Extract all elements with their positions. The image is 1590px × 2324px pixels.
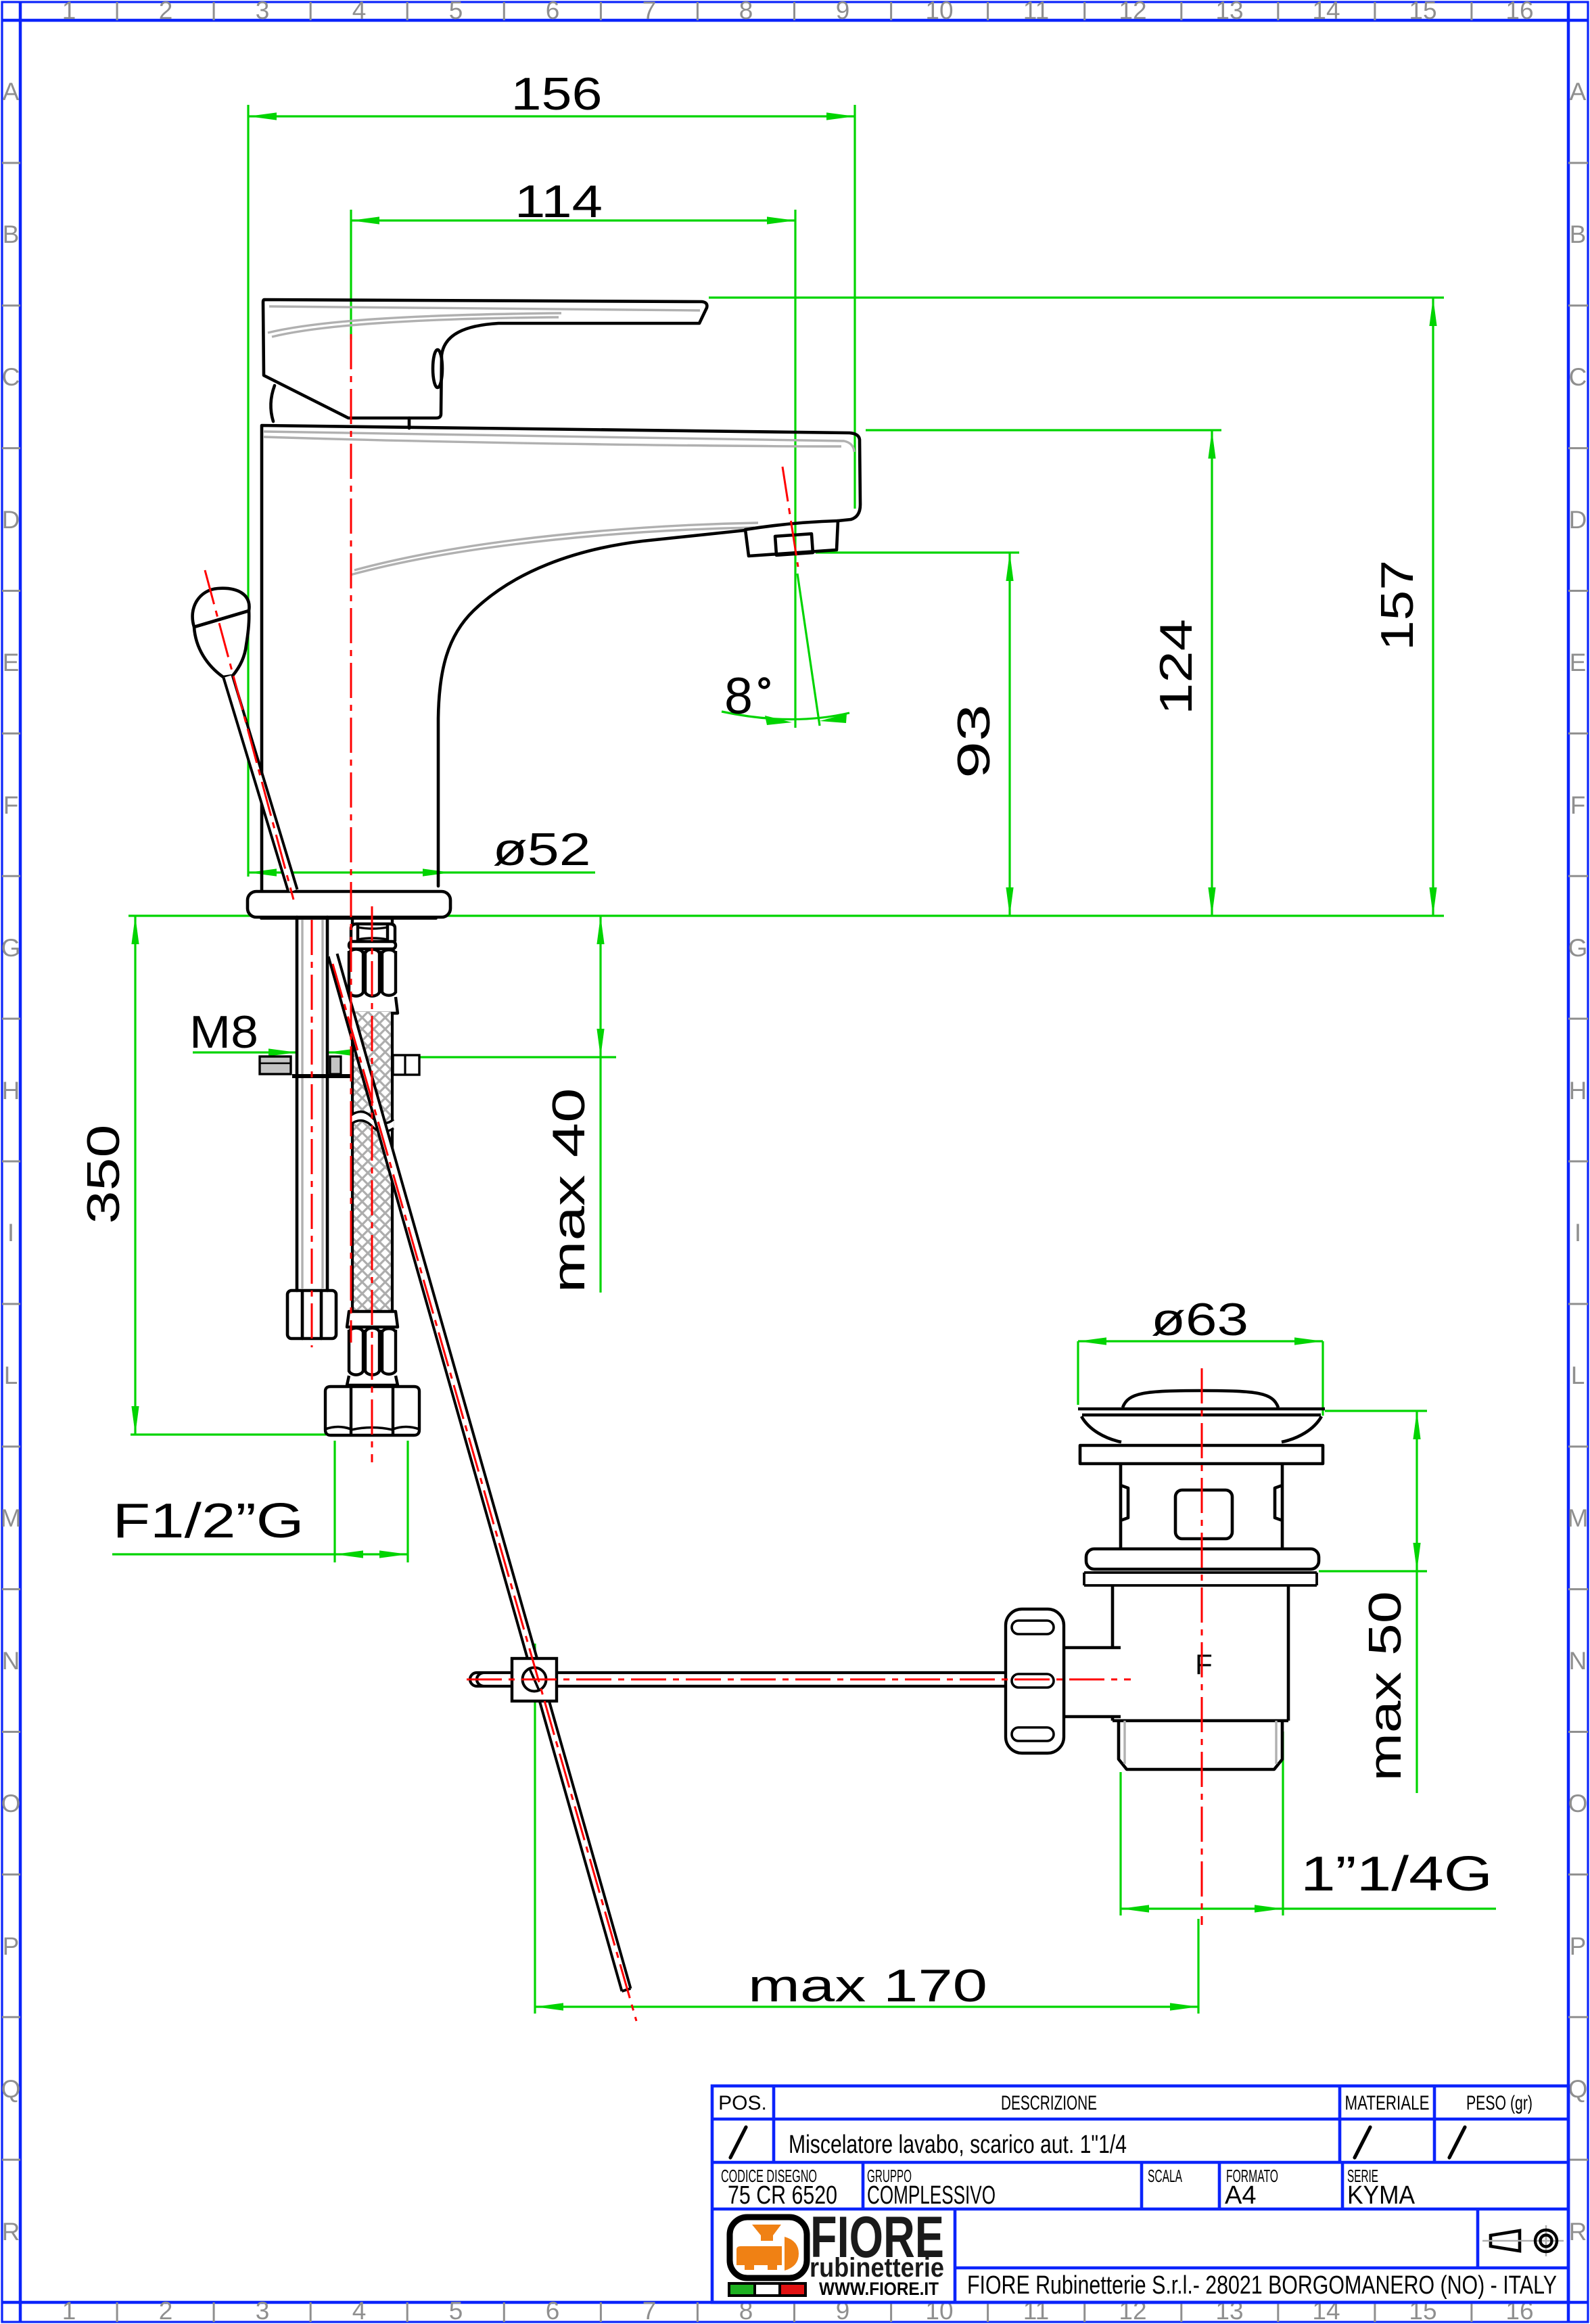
svg-text:11: 11 — [1023, 0, 1049, 24]
dimension 1"1/4G — [1121, 1907, 1496, 1909]
centerline faucet body axis — [350, 334, 352, 1343]
svg-text:B: B — [3, 220, 20, 248]
svg-text:8: 8 — [724, 668, 753, 725]
svg-text:M8: M8 — [189, 1006, 258, 1058]
svg-text:157: 157 — [1372, 560, 1423, 651]
svg-text:M: M — [1568, 1504, 1589, 1532]
svg-text:B: B — [1570, 220, 1587, 248]
svg-text:C: C — [1569, 363, 1587, 391]
svg-text:R: R — [1569, 2218, 1587, 2246]
svg-text:3: 3 — [256, 2297, 270, 2324]
svg-text:12: 12 — [1119, 0, 1146, 24]
svg-text:N: N — [1569, 1647, 1587, 1675]
mounting plate right clamp — [393, 1055, 419, 1075]
title block grid — [712, 2086, 1568, 2302]
drain knurled nut — [1006, 1609, 1064, 1753]
drain threaded tail — [1119, 1721, 1282, 1769]
mounting plate left block — [260, 1056, 291, 1074]
svg-text:10: 10 — [925, 0, 953, 24]
clevis screw circle — [523, 1668, 546, 1692]
hose braided tube — [352, 1012, 392, 1311]
svg-text:Q: Q — [1, 2075, 21, 2103]
svg-text:93: 93 — [948, 704, 1000, 778]
extension line lever top level — [709, 296, 1444, 298]
spout underside highlight — [354, 523, 758, 570]
centerline lift rod lower — [333, 964, 636, 2021]
dimension F1/2"G extension lines — [333, 1441, 335, 1562]
svg-text:P: P — [3, 1932, 20, 1960]
svg-text:max 40: max 40 — [543, 1088, 594, 1293]
hose bottom corrugation — [325, 1311, 419, 1435]
projection symbol circles — [1482, 2240, 1564, 2242]
handle pivot ellipse — [433, 350, 442, 388]
dimension 350 bottom extension — [131, 1433, 326, 1435]
svg-text:L: L — [4, 1362, 18, 1389]
spout and body outline — [438, 530, 745, 886]
svg-text:H: H — [1569, 1077, 1587, 1105]
drain upper body — [1121, 1464, 1282, 1549]
svg-text:7: 7 — [642, 0, 657, 24]
pull rod clevis block — [512, 1658, 557, 1701]
dimension 114 — [351, 219, 795, 221]
svg-text:I: I — [7, 1219, 14, 1247]
centerline supply hose axis — [371, 906, 373, 1462]
svg-text:350: 350 — [78, 1125, 129, 1224]
dimension 156 — [248, 115, 855, 117]
base flange — [248, 891, 450, 917]
svg-text:G: G — [1568, 934, 1588, 962]
drain tailpiece — [1113, 1585, 1288, 1721]
svg-text:Miscelatore lavabo, scarico au: Miscelatore lavabo, scarico aut. 1"1/4 — [789, 2131, 1127, 2159]
dimension 124 — [1211, 430, 1213, 916]
lift rod knob — [193, 588, 250, 677]
svg-text:156: 156 — [511, 68, 603, 120]
svg-text:114: 114 — [515, 176, 603, 227]
svg-text:F1/2”G: F1/2”G — [113, 1494, 304, 1548]
svg-text:9: 9 — [836, 0, 850, 24]
drain locknut — [1080, 1445, 1323, 1464]
svg-text:MATERIALE: MATERIALE — [1345, 2092, 1430, 2114]
dimension 156 extension lines — [247, 105, 249, 877]
svg-text:POS.: POS. — [718, 2092, 767, 2114]
svg-text:16: 16 — [1505, 0, 1533, 24]
svg-text:SCALA: SCALA — [1148, 2166, 1182, 2186]
dimension max 170 extension lines — [534, 1644, 536, 2014]
svg-text:O: O — [1, 1790, 21, 1817]
drain top flange — [1078, 1409, 1325, 1442]
projection symbol cone — [1491, 2231, 1520, 2251]
pull rod left stub — [470, 1673, 512, 1686]
svg-text:O: O — [1568, 1790, 1588, 1817]
drain side tee stem — [1064, 1648, 1121, 1717]
hose top corrugation — [349, 949, 396, 953]
horizontal pull rod — [470, 1673, 1006, 1686]
shank shading — [301, 920, 303, 1288]
dimension F1/2"G — [112, 1553, 408, 1555]
hose F1/2 nut — [325, 1387, 419, 1435]
svg-text:15: 15 — [1409, 0, 1436, 24]
svg-text:D: D — [1569, 506, 1587, 534]
svg-text:D: D — [2, 506, 20, 534]
svg-text:6: 6 — [546, 2297, 560, 2324]
centerline lift knob rod upper — [205, 570, 294, 900]
svg-text:124: 124 — [1150, 619, 1202, 715]
italian flag — [729, 2283, 805, 2296]
dimension 350 — [134, 916, 136, 1435]
FIORE logo orange faucet icon — [736, 2225, 799, 2271]
dimension max 40 extension — [419, 1056, 616, 1058]
svg-text:14: 14 — [1312, 0, 1340, 24]
faucet handle lever — [263, 300, 707, 418]
hose top hex fitting — [347, 919, 398, 1013]
svg-text:FIORE Rubinetterie S.r.l.- 280: FIORE Rubinetterie S.r.l.- 28021 BORGOMA… — [967, 2271, 1557, 2300]
dimension 8 degree arc — [722, 712, 849, 720]
svg-text:2: 2 — [159, 0, 173, 24]
svg-text:max 50: max 50 — [1359, 1591, 1411, 1782]
svg-text:1”1/4G: 1”1/4G — [1301, 1847, 1493, 1901]
svg-text:ø52: ø52 — [493, 824, 591, 875]
svg-text:F: F — [1195, 1648, 1213, 1680]
svg-text:G: G — [1, 934, 21, 962]
mounting plate bottom edge — [292, 1074, 381, 1078]
extension line deck level — [128, 914, 1444, 916]
svg-text:R: R — [2, 2218, 20, 2246]
M8 threaded stud — [296, 917, 299, 1291]
dimension M8 — [193, 1051, 297, 1053]
small step under cartridge — [408, 418, 411, 428]
aerator housing — [745, 521, 838, 556]
svg-text:7: 7 — [642, 2297, 657, 2324]
svg-text:F: F — [3, 791, 19, 819]
svg-text:E: E — [1570, 649, 1587, 676]
svg-text:Q: Q — [1568, 2075, 1588, 2103]
svg-text:2: 2 — [159, 2297, 173, 2324]
handle top highlight — [269, 306, 700, 310]
lift rod upper segment — [224, 675, 298, 892]
dimension max 170 — [535, 2005, 1198, 2007]
centerline M8 stud axis — [311, 920, 313, 1347]
dimension max 50 connector lines — [1325, 1410, 1427, 1412]
body rear arc — [271, 386, 275, 421]
svg-text:4: 4 — [352, 0, 367, 24]
svg-text:1: 1 — [62, 2297, 76, 2324]
dimension ø52 — [248, 871, 595, 873]
svg-text:WWW.FIORE.IT: WWW.FIORE.IT — [819, 2279, 939, 2299]
dimension 93 extension line — [816, 551, 1019, 553]
centerline pull rod horizontal axis — [467, 1679, 1131, 1681]
svg-text:ø63: ø63 — [1151, 1294, 1248, 1345]
dimension 114 extension lines — [350, 210, 352, 340]
svg-text:A4: A4 — [1225, 2181, 1256, 2210]
svg-text:A: A — [3, 78, 20, 106]
svg-text:13: 13 — [1215, 0, 1243, 24]
svg-text:N: N — [2, 1647, 20, 1675]
centerline aerator outlet axis — [782, 467, 798, 567]
svg-text:max 170: max 170 — [748, 1960, 987, 2012]
M8 hex nut — [287, 1291, 336, 1339]
title block header texts — [718, 2092, 1533, 2114]
dimension 124 extension line — [866, 429, 1221, 431]
svg-text:E: E — [3, 649, 20, 676]
dimension 157 — [1432, 298, 1434, 916]
svg-text:DESCRIZIONE: DESCRIZIONE — [1001, 2092, 1097, 2114]
svg-text:H: H — [2, 1077, 20, 1105]
svg-text:M: M — [1, 1504, 22, 1532]
dimension ø63 — [1078, 1340, 1323, 1342]
spout top highlight — [264, 432, 854, 452]
FIORE logo icon frame — [730, 2217, 807, 2278]
centerline drain vertical axis — [1201, 1368, 1203, 1925]
svg-text:I: I — [1574, 1219, 1581, 1247]
drain lower flange — [1086, 1549, 1319, 1569]
svg-text:5: 5 — [449, 0, 463, 24]
dimension ø63 extension lines — [1077, 1341, 1079, 1405]
title block small labels — [721, 2166, 1378, 2186]
svg-text:F: F — [1570, 791, 1586, 819]
svg-text:KYMA: KYMA — [1347, 2181, 1416, 2210]
dimension 1"1/4G extension lines — [1119, 1772, 1121, 1915]
svg-text:5: 5 — [449, 2297, 463, 2324]
title block values — [728, 2131, 1416, 2210]
dimension max 50 — [1416, 1411, 1418, 1793]
drain pop-up cap — [1123, 1391, 1278, 1408]
svg-text:PESO (gr): PESO (gr) — [1466, 2092, 1533, 2114]
mounting plate center block — [330, 1056, 341, 1074]
svg-text:A: A — [1570, 78, 1587, 106]
svg-text:P: P — [1570, 1932, 1587, 1960]
svg-text:3: 3 — [256, 0, 270, 24]
thread shading — [1125, 1721, 1276, 1764]
dimension max 40 — [599, 916, 601, 1293]
hose break symbol — [351, 1112, 394, 1132]
svg-text:C: C — [2, 363, 20, 391]
svg-text:6: 6 — [546, 0, 560, 24]
svg-text:1: 1 — [62, 0, 76, 24]
svg-text:8: 8 — [739, 0, 753, 24]
dimension 93 — [1008, 553, 1010, 916]
svg-text:L: L — [1571, 1362, 1585, 1389]
drain body window — [1175, 1490, 1232, 1539]
lift rod lower segment — [329, 954, 631, 1991]
dimension 8 degree angle lines — [797, 574, 820, 726]
svg-text:4: 4 — [352, 2297, 367, 2324]
slash marks — [730, 2127, 1465, 2158]
